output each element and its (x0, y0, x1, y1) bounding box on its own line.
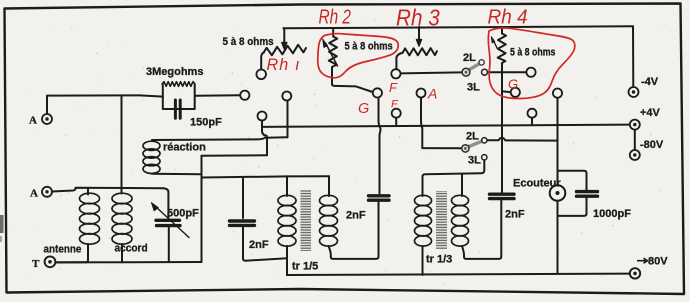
terminal Rh1 left (256, 70, 266, 80)
wire T line (56, 261, 202, 263)
capacitor C5 2nF right plates (490, 194, 515, 198)
svg-text:antenne: antenne (44, 244, 82, 256)
red annotation F lower (391, 99, 399, 111)
wire main horizontal +4V line H3 (262, 125, 630, 127)
red annotation Rh1 (267, 55, 301, 74)
wire grid resistor to terminal (196, 94, 241, 97)
label tr 1/5 (292, 261, 318, 273)
svg-text:80V: 80V (648, 256, 668, 268)
terminal A pin (417, 89, 426, 98)
terminal ecouteur top (553, 89, 562, 98)
wire tr 1/5 secondary bottom to mid 2nF (329, 201, 379, 259)
terminal grid-leak right (240, 91, 249, 100)
terminal 532 stub wire (531, 118, 533, 126)
wire Rh1 left end to terminal (261, 52, 264, 69)
label 150pF (190, 117, 222, 129)
transformer tr1/5 core (301, 190, 312, 251)
terminal right lower pin (528, 109, 537, 118)
capacitor C1 150pF plates (175, 100, 180, 118)
svg-text:2nF: 2nF (346, 210, 366, 222)
wire antenne coil bottom to T line (56, 244, 89, 262)
wire 500pF top feed (163, 188, 168, 218)
label accord (115, 242, 148, 254)
svg-text:tr 1/5: tr 1/5 (292, 261, 318, 273)
wire middle line from socket to reaction (202, 154, 268, 157)
wire ecouteur bottom to bus (557, 201, 559, 274)
wire left 2nF bottom feed (243, 227, 287, 261)
terminal socket left (258, 112, 267, 121)
label +80V with arrow (637, 256, 668, 268)
label 2L middle (466, 131, 479, 143)
wire F terminal to switch pivot (401, 72, 461, 73)
svg-text:T: T (32, 258, 40, 270)
label A2 (30, 188, 38, 200)
transformer tr1/3 secondary coil (452, 195, 469, 246)
earphone Ecouteur symbol (550, 185, 566, 201)
Rh3 wiper arrowhead (416, 39, 422, 47)
label Ecouteur (513, 178, 561, 190)
label 2nF right (505, 209, 525, 221)
resistor Rh1 zigzag (264, 45, 306, 56)
svg-text:2nF: 2nF (505, 209, 525, 221)
svg-text:F: F (389, 80, 398, 95)
svg-text:3Megohms: 3Megohms (146, 66, 203, 78)
terminal F pin upper (391, 69, 400, 78)
svg-text:Rh 3: Rh 3 (396, 4, 440, 30)
wire grid vertical to accord coil (121, 96, 123, 194)
resistor Rh4 zigzag vertical (498, 34, 506, 64)
wire ecouteur vertical (557, 126, 559, 185)
svg-text:A: A (30, 188, 38, 200)
svg-text:1000pF: 1000pF (593, 208, 631, 220)
wire 1000pF top branch (558, 171, 587, 190)
wire ecouteur top terminal down to H3 (557, 98, 559, 126)
wire +4V to -80V link (634, 129, 636, 150)
wire tr 1/5 primary top feed (286, 176, 288, 196)
resistor Rh3 zigzag (403, 48, 437, 55)
label 2nF left (249, 239, 269, 251)
binding post +80V (630, 268, 640, 278)
svg-text:-80V: -80V (640, 139, 664, 151)
red annotation Rh 3 (396, 4, 440, 30)
wire top bus (284, 26, 634, 28)
svg-text:5 à 8 ohms: 5 à 8 ohms (345, 41, 394, 53)
left edge smudge (0, 215, 4, 242)
label tr 1/3 (426, 254, 452, 266)
wire tr 1/3 secondary bottom to right 2nF (462, 200, 501, 259)
wire reaction bottom (152, 173, 202, 175)
wire tr 1/3 primary bottom to bus (422, 246, 424, 275)
red annotation A (427, 86, 437, 102)
resistor Rh2 zigzag vertical (329, 37, 337, 68)
resistor R1 3Megohms zigzag (162, 82, 195, 87)
transformer tr1/3 primary coil (415, 195, 432, 246)
label A1 (29, 115, 37, 127)
label 500pF (167, 208, 199, 220)
capacitor C3 2nF left plates (230, 221, 255, 225)
svg-text:Rh ı: Rh ı (267, 55, 301, 74)
wire switch contact to Rh4 junction and terminal (488, 71, 527, 73)
wire Rh2 bottom to G terminal (332, 67, 373, 92)
red circle blob around Rh4 (488, 28, 575, 99)
wire accord coil bottom stub (121, 244, 123, 262)
svg-text:A: A (29, 115, 37, 127)
label 2nF middle (346, 210, 366, 222)
svg-text:G: G (508, 77, 518, 92)
svg-text:500pF: 500pF (167, 208, 199, 220)
svg-text:réaction: réaction (163, 142, 206, 154)
wire plate vertical terminal to H3 to reaction top (287, 100, 289, 137)
svg-text:+4V: +4V (640, 107, 661, 119)
wire bottom +80V bus (287, 274, 630, 275)
terminal plate pin (282, 92, 291, 101)
label 5 a 8 ohms (Rh2) (345, 41, 394, 53)
wire right 2nF top feed from H3 (501, 126, 503, 193)
terminal F pin lower (392, 109, 401, 118)
wire G terminal down to mid 2nF (379, 98, 381, 194)
wire left 2nF top feed (242, 177, 244, 218)
wire Rh2 top stub (332, 28, 334, 37)
wire Rh3 wiper feed (418, 27, 420, 40)
label 3L top (467, 82, 480, 94)
svg-text:Ecouteur: Ecouteur (513, 178, 561, 190)
svg-text:A: A (427, 86, 437, 102)
svg-text:2nF: 2nF (249, 239, 269, 251)
resistor R1 parallel box (163, 85, 195, 110)
wire A line to switch pivot (422, 147, 461, 149)
binding post T (45, 256, 56, 267)
binding post A1 (42, 114, 52, 124)
red annotation G left (358, 101, 369, 117)
500pF arrow diagonal (151, 203, 189, 238)
transformer tr1/5 secondary coil (320, 195, 338, 246)
label 3L middle (468, 155, 481, 167)
capacitor C4 2nF middle plates (369, 196, 390, 200)
switch 2L/3L top (462, 60, 487, 76)
wire Rh4 top stub (501, 27, 503, 33)
label -4V (641, 76, 659, 88)
red annotation Rh 4 (488, 6, 528, 29)
svg-text:-4V: -4V (641, 76, 659, 88)
label 5 a 8 ohms (Rh1) (223, 37, 274, 49)
svg-text:Rh 2: Rh 2 (319, 6, 352, 28)
svg-text:tr 1/3: tr 1/3 (426, 254, 452, 266)
wire A terminal down to switch line (421, 98, 422, 148)
svg-text:5 à 8 ohms: 5 à 8 ohms (510, 47, 556, 59)
svg-text:2L: 2L (466, 131, 479, 143)
svg-text:2L: 2L (463, 52, 476, 64)
wire tr 1/3 secondary top feed (461, 174, 463, 196)
label reaction (163, 142, 206, 154)
svg-text:5 à 8 ohms: 5 à 8 ohms (223, 37, 274, 49)
label 5 a 8 ohms (Rh4) (510, 47, 556, 59)
red annotation F upper (389, 80, 398, 95)
red annotation Rh 2 (319, 6, 352, 28)
wire A2 terminal to tuned node (52, 188, 163, 192)
label -80V (640, 139, 664, 151)
binding post -4V (629, 87, 639, 97)
label 3Megohms (146, 66, 203, 78)
wire Rh1 wiper feed (283, 28, 286, 43)
terminal G pin right (511, 88, 520, 97)
terminal right of top switch (526, 68, 535, 77)
transformer tr1/3 core (436, 191, 447, 249)
svg-text:150pF: 150pF (190, 117, 222, 129)
wire reaction lower line to tr 1/5 (202, 176, 330, 177)
wire 500pF bottom feed (168, 228, 170, 262)
wire tr 1/5 secondary top feed (328, 176, 330, 196)
label +4V (640, 107, 661, 119)
binding post A2 (42, 187, 52, 197)
wire -4V drop (632, 26, 634, 87)
terminal G pin (373, 88, 382, 97)
wire G stub right of Rh4 line (502, 90, 511, 93)
svg-text:Rh 4: Rh 4 (488, 6, 528, 29)
wire 3L contact down-left to tr 1/3 tops (423, 160, 485, 196)
binding post -80V (630, 150, 640, 160)
label antenne (44, 244, 82, 256)
wire antenne coil top stub (87, 188, 89, 195)
capacitor C2 500pF variable plates (156, 220, 180, 225)
Rh1 wiper arrowhead (282, 42, 288, 50)
label 2L top (463, 52, 476, 64)
wire 2L contact to ecouteur node (487, 138, 558, 141)
wire Rh4 bottom through junction down to H3 (501, 63, 503, 126)
wire socket terminal jog down (262, 121, 267, 156)
inductor reaction coil loops (143, 141, 160, 173)
wire tr 1/5 primary bottom to bus (286, 246, 288, 275)
label 1000pF (593, 208, 631, 220)
transformer tr1/5 primary coil (278, 195, 296, 246)
binding post +4V (630, 120, 640, 130)
red circle blob around Rh2 (318, 34, 399, 78)
svg-text:accord: accord (115, 242, 148, 254)
wire Rh3 left end to F terminal (396, 53, 403, 70)
wire 1000pF bottom branch (558, 198, 587, 216)
switch 2L/3L middle (462, 138, 487, 160)
svg-text:3L: 3L (468, 155, 481, 167)
inductor antenne coil (80, 193, 100, 244)
svg-text:3L: 3L (467, 82, 480, 94)
wire F stub to H3 (395, 118, 397, 127)
wire A1 terminal up and right to grid resistor (47, 95, 163, 114)
label T (32, 258, 40, 270)
Rh2 wiper arrow diagonal (323, 39, 338, 66)
svg-text:G: G (358, 101, 369, 117)
wire reaction top line with jog (152, 137, 288, 140)
inductor accord coil (112, 193, 132, 244)
wire +80V terminal stub (629, 273, 631, 275)
Rh4 wiper arrow small (491, 37, 497, 49)
capacitor C6 1000pF plates (577, 192, 598, 197)
wire reaction bottom vertical riser (201, 156, 203, 262)
red annotation G right (508, 77, 518, 92)
